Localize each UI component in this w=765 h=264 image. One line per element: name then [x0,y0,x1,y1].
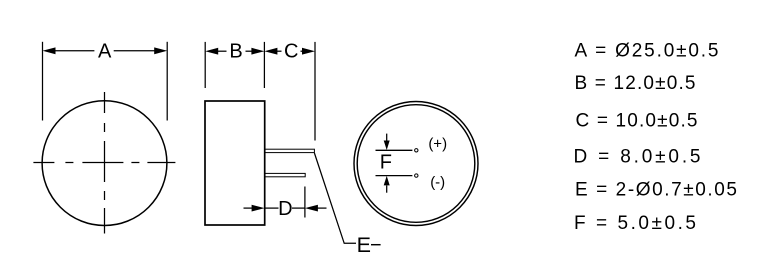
dim D right tail + arrow [305,205,318,212]
dim A extension line left [42,42,44,121]
svg-text:A: A [98,41,112,63]
svg-text:F: F [380,152,392,174]
plus terminal line [376,149,413,151]
dim A extension line right [166,42,168,121]
svg-text:C: C [284,40,298,62]
svg-text:D: D [278,198,292,220]
dim A line right + arrow [114,50,155,52]
dim C extension line right [314,42,316,141]
minus terminal line [376,175,413,177]
minus terminal dot [415,174,418,177]
top lead [265,149,315,152]
back view outer circle [354,102,478,226]
svg-text:F = 5.0±0.5: F = 5.0±0.5 [574,213,696,234]
front view circle [42,101,167,226]
dim D inner line segments [265,207,279,209]
dash after E [371,244,381,246]
svg-text:A = Ø25.0±0.5: A = Ø25.0±0.5 [575,40,719,61]
bottom lead [265,173,305,176]
dim B/C shared extension line [263,42,265,88]
svg-text:D = 8.0±0.5: D = 8.0±0.5 [574,147,701,168]
back view inner circle [357,105,475,223]
dim F bottom tail + arrow [386,186,388,193]
dim B extension line left [204,42,206,88]
svg-text:E: E [357,233,371,257]
horizontal centerline [33,162,176,164]
svg-text:(-): (-) [430,174,445,191]
dim B line + arrows [218,50,227,52]
dim C line + arrows [277,50,282,52]
svg-text:(+): (+) [428,136,447,153]
svg-text:C = 10.0±0.5: C = 10.0±0.5 [576,110,698,131]
svg-text:B: B [229,40,242,62]
vertical centerline [104,92,106,234]
dim D left tail + arrow [244,207,254,209]
dim D extension line right [304,187,306,218]
plus terminal dot [415,149,418,152]
dim A line left + arrow [55,50,94,52]
svg-text:E = 2-Ø0.7±0.05: E = 2-Ø0.7±0.05 [575,179,737,200]
leader line to E [314,153,356,243]
side view body rectangle [205,101,265,225]
dim F top tail + arrow [386,134,388,142]
